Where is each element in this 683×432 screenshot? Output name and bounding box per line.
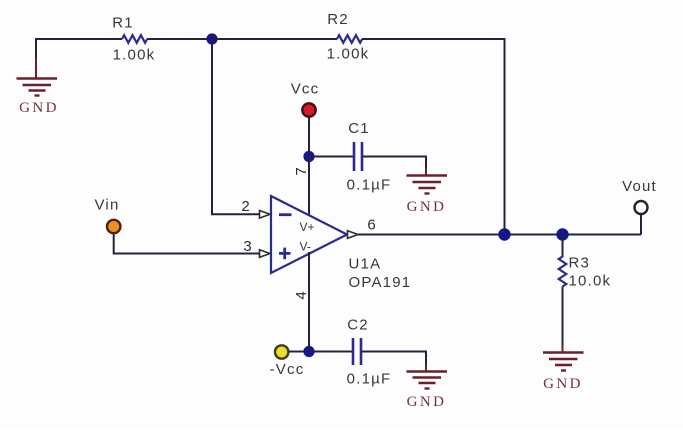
ground GND2 bbox=[407, 168, 448, 215]
svg-text:4: 4 bbox=[293, 291, 310, 299]
wire R1 to node A bbox=[147, 38, 212, 40]
svg-text:C1: C1 bbox=[348, 120, 370, 137]
svg-text:3: 3 bbox=[243, 238, 251, 255]
ground GND4 bbox=[543, 345, 584, 392]
svg-text:GND: GND bbox=[407, 199, 447, 215]
resistor R3 bbox=[559, 255, 612, 290]
node B junction bbox=[303, 151, 314, 162]
capacitor C1 bbox=[347, 120, 392, 194]
svg-text:0.1µF: 0.1µF bbox=[347, 177, 392, 194]
resistor R2 bbox=[327, 11, 370, 63]
node E junction bbox=[556, 228, 568, 240]
wire GND1 to R1 bbox=[36, 39, 122, 60]
svg-text:7: 7 bbox=[293, 167, 310, 175]
pin 2 arrow bbox=[260, 211, 271, 219]
svg-text:10.0k: 10.0k bbox=[569, 273, 612, 290]
ground GND1 bbox=[17, 58, 59, 116]
wire node B to pin 7 bbox=[308, 157, 310, 217]
wire node A to R2 bbox=[212, 38, 337, 40]
svg-text:V+: V+ bbox=[300, 220, 315, 234]
svg-text:1.00k: 1.00k bbox=[113, 47, 156, 64]
node A junction bbox=[206, 33, 217, 44]
wire node B to C1 bbox=[309, 156, 353, 158]
svg-text:0.1µF: 0.1µF bbox=[347, 371, 392, 388]
wire node A to pin 2 bbox=[212, 39, 259, 214]
wire node C to C2 bbox=[309, 351, 352, 353]
terminal Vcc bbox=[291, 81, 320, 117]
wire -Vcc to node C bbox=[289, 351, 305, 353]
svg-text:-Vcc: -Vcc bbox=[270, 361, 305, 378]
wire C1 to GND2 bbox=[363, 157, 426, 171]
wire Vin to pin 3 bbox=[114, 234, 259, 254]
node D junction bbox=[498, 228, 510, 240]
svg-text:R1: R1 bbox=[112, 15, 134, 32]
svg-text:GND: GND bbox=[19, 100, 59, 116]
svg-text:1.00k: 1.00k bbox=[327, 46, 370, 63]
svg-text:Vout: Vout bbox=[622, 178, 657, 195]
svg-text:C2: C2 bbox=[347, 317, 369, 334]
minus sign bbox=[279, 213, 292, 216]
wire C2 to GND3 bbox=[362, 352, 426, 367]
plus sign bbox=[279, 248, 291, 260]
svg-text:OPA191: OPA191 bbox=[349, 274, 412, 291]
terminal -Vcc bbox=[270, 345, 305, 378]
svg-text:GND: GND bbox=[407, 394, 447, 410]
svg-text:Vcc: Vcc bbox=[291, 81, 320, 98]
svg-text:R3: R3 bbox=[569, 255, 591, 272]
pin 6 arrow bbox=[348, 231, 359, 239]
svg-text:2: 2 bbox=[241, 198, 249, 215]
svg-text:GND: GND bbox=[543, 376, 583, 392]
terminal Vout bbox=[622, 178, 657, 214]
wire pin 6 to Vout bbox=[358, 234, 641, 236]
wire node E to R3 bbox=[562, 235, 564, 258]
svg-text:V-: V- bbox=[300, 240, 311, 254]
svg-text:6: 6 bbox=[367, 217, 375, 234]
pin 3 arrow bbox=[260, 250, 271, 258]
wire Vout down bbox=[640, 214, 642, 235]
wire Vcc to node B bbox=[308, 117, 310, 157]
ground GND3 bbox=[407, 364, 448, 410]
wire pin 4 to node C bbox=[308, 252, 310, 352]
wire R2 to node D (feedback) bbox=[362, 39, 505, 235]
node C junction bbox=[303, 346, 314, 357]
op-amp U1 triangle bbox=[271, 196, 411, 291]
svg-text:U1A: U1A bbox=[349, 256, 382, 273]
resistor R1 bbox=[112, 15, 155, 64]
wire R3 to GND4 bbox=[562, 287, 564, 348]
svg-text:R2: R2 bbox=[327, 11, 349, 28]
svg-text:Vin: Vin bbox=[94, 197, 119, 214]
capacitor C2 bbox=[347, 317, 392, 388]
terminal Vin bbox=[94, 197, 120, 234]
